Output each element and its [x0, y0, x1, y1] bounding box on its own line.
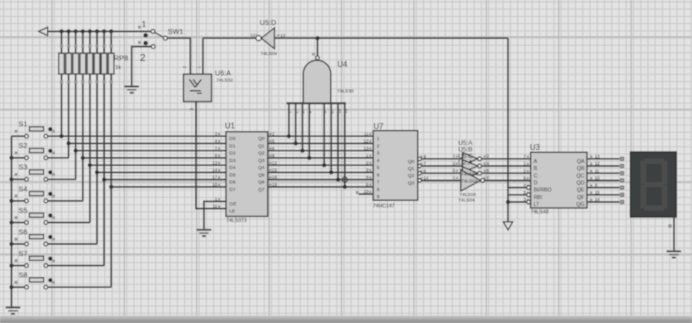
push button S1	[12, 120, 55, 139]
svg-text:QD: QD	[577, 181, 585, 187]
wire U4 output net along top	[275, 37, 509, 39]
wire display common to ground	[673, 217, 675, 250]
svg-text:1: 1	[377, 136, 380, 142]
svg-text:5: 5	[377, 165, 380, 171]
svg-text:74LS04: 74LS04	[458, 197, 475, 203]
svg-text:74LS04: 74LS04	[461, 171, 478, 177]
svg-text:Q4: Q4	[258, 165, 265, 171]
junction dots at RP8 columns on D rows	[59, 134, 113, 189]
decoder U3 74LS48	[524, 143, 601, 215]
svg-text:7: 7	[377, 180, 380, 186]
svg-text:QG: QG	[576, 202, 584, 208]
svg-text:A: A	[534, 159, 538, 165]
svg-text:QE: QE	[577, 188, 585, 194]
open ring at pin-12 wire crossing Q6 row	[342, 177, 347, 182]
svg-text:D6: D6	[229, 180, 236, 186]
svg-text:12: 12	[364, 139, 369, 144]
svg-text:C: C	[534, 173, 538, 179]
bubbles on U7 outputs	[418, 157, 422, 182]
svg-text:3: 3	[377, 151, 380, 157]
wire SW1 common to U6:A pin 2	[167, 38, 190, 74]
inverter U5:D 74LS04	[203, 18, 286, 74]
svg-text:S3: S3	[19, 163, 28, 172]
junction dots on bus at RP8 columns	[59, 29, 113, 33]
ground below display	[667, 251, 682, 257]
labels for U5/U2 inverter cluster	[458, 140, 478, 203]
svg-text:Q0: Q0	[258, 136, 265, 142]
svg-text:8: 8	[311, 53, 316, 56]
junction dots at U4 pins on Q rows	[287, 134, 347, 189]
svg-text:Q3: Q3	[408, 180, 415, 186]
ground below SW1 pole 2	[124, 87, 139, 93]
svg-text:Q5: Q5	[258, 172, 265, 178]
svg-text:S1: S1	[19, 120, 28, 129]
pads at display segment pins	[620, 157, 624, 204]
push button S4	[12, 184, 55, 203]
svg-text:U4: U4	[337, 60, 348, 69]
svg-text:4: 4	[377, 158, 380, 164]
svg-text:3: 3	[189, 108, 194, 111]
inverter U5:C 74LS04	[453, 167, 490, 180]
svg-text:RP8: RP8	[114, 54, 129, 63]
wire to U3 RBI	[508, 194, 527, 196]
junction dot at LT row	[506, 200, 510, 204]
svg-text:13: 13	[364, 146, 369, 151]
svg-text:QC: QC	[577, 173, 585, 179]
svg-text:74LS04: 74LS04	[460, 192, 477, 198]
svg-text:13: 13	[212, 160, 217, 165]
resistor pack RP8 (8 resistors, 1k)	[59, 45, 129, 84]
svg-text:U7: U7	[374, 122, 384, 131]
encoder U7 74HC147	[364, 122, 430, 209]
svg-text:11: 11	[364, 131, 369, 136]
wires U4 input pins down to Q rows	[289, 103, 345, 187]
ground below U1 OE	[197, 230, 212, 236]
svg-text:18: 18	[212, 182, 217, 187]
wire to U3 LT	[508, 201, 527, 203]
svg-text:S8: S8	[19, 271, 28, 280]
svg-text:2: 2	[377, 143, 380, 149]
svg-text:U2:A: U2:A	[458, 160, 473, 167]
svg-text:D5: D5	[229, 172, 236, 178]
svg-text:D3: D3	[229, 158, 236, 164]
svg-text:B: B	[534, 166, 538, 172]
wire SW1 pole 2 to ground	[132, 47, 152, 86]
latch U1 74LS373	[212, 122, 277, 224]
svg-text:74HC147: 74HC147	[373, 203, 395, 209]
pad at U7 input 9 end	[356, 191, 359, 194]
inverter U2:A 74LS04	[453, 170, 490, 191]
wire to U3 BI/RBO	[508, 187, 527, 189]
svg-text:D: D	[534, 181, 538, 187]
svg-text:Q1: Q1	[258, 143, 265, 149]
svg-text:11: 11	[213, 204, 218, 209]
svg-text:74LS04: 74LS04	[461, 178, 478, 184]
wire bus from terminal to SW1 pole 1	[48, 30, 152, 32]
svg-text:D7: D7	[229, 187, 236, 193]
wires: 8 pull-up columns through RP8 down to switches	[62, 31, 112, 287]
svg-text:74LS373: 74LS373	[226, 218, 247, 224]
svg-text:74LS48: 74LS48	[531, 210, 549, 216]
wire U6:A output to U1 LE	[196, 102, 226, 209]
wires U3 QA-QG to 7-segment display	[587, 159, 620, 202]
op-amp-style gate U6:A (74LS32 OR)	[182, 66, 233, 111]
svg-text:2: 2	[182, 66, 187, 69]
wire left rail to ground	[11, 136, 13, 306]
push button S2	[12, 141, 55, 160]
push button S6	[12, 227, 55, 246]
svg-text:Q2: Q2	[258, 151, 265, 157]
svg-text:14: 14	[212, 168, 217, 173]
svg-text:LT: LT	[534, 202, 541, 208]
7-segment display	[631, 152, 677, 217]
svg-text:S4: S4	[19, 184, 28, 193]
push button S5	[12, 206, 55, 225]
ground bottom left	[6, 308, 21, 314]
svg-text:S6: S6	[19, 227, 28, 236]
svg-text:17: 17	[212, 175, 217, 180]
svg-text:U5:D: U5:D	[260, 18, 276, 27]
svg-text:1: 1	[197, 66, 202, 69]
svg-text:RBI: RBI	[534, 195, 543, 201]
svg-text:OE: OE	[229, 201, 237, 207]
pad at display common pin	[668, 224, 671, 227]
svg-text:Q0: Q0	[408, 159, 415, 165]
svg-text:U3: U3	[530, 143, 540, 152]
svg-text:QB: QB	[577, 166, 585, 172]
svg-text:74LS30: 74LS30	[337, 89, 354, 95]
svg-text:LE: LE	[229, 209, 236, 215]
wires from switches / RP8 columns to U1 D0-D7	[48, 136, 226, 287]
svg-text:D0: D0	[229, 136, 236, 142]
nand gate U4 74LS30 (8-input)	[286, 38, 353, 113]
wire U7 input 9 stub	[359, 193, 374, 195]
switch SW1 (SPDT)	[138, 19, 183, 64]
svg-text:D1: D1	[229, 143, 236, 149]
wires U1 Q0-Q7 to U7 inputs	[268, 136, 373, 187]
inverter U5:A 74LS04	[453, 152, 490, 165]
svg-text:Q6: Q6	[258, 180, 265, 186]
wire right vertical to U3 LT	[507, 38, 509, 221]
svg-text:12: 12	[250, 33, 255, 38]
wire U1 OE to ground	[204, 201, 226, 229]
svg-text:Q1: Q1	[408, 166, 415, 172]
svg-text:74LS04: 74LS04	[261, 51, 278, 57]
push button S3	[12, 163, 55, 182]
wires U7 outputs to U3 A-D	[421, 159, 530, 181]
svg-text:9: 9	[377, 194, 380, 200]
push button S7	[12, 249, 55, 268]
svg-text:8: 8	[377, 187, 380, 193]
input terminal (left arrow)	[39, 27, 48, 35]
junction dots on left rail	[9, 156, 13, 290]
svg-text:6: 6	[377, 172, 380, 178]
junction dot at U4 output tee	[315, 36, 319, 40]
svg-text:Q2: Q2	[408, 173, 415, 179]
svg-text:BI/RBO: BI/RBO	[534, 188, 552, 194]
svg-text:QF: QF	[577, 195, 585, 201]
svg-text:U6:A: U6:A	[215, 68, 231, 77]
svg-text:QA: QA	[577, 159, 585, 165]
svg-text:D2: D2	[229, 151, 236, 157]
svg-text:S2: S2	[19, 141, 28, 150]
svg-text:D4: D4	[229, 165, 236, 171]
svg-text:Q3: Q3	[258, 158, 265, 164]
svg-text:2: 2	[140, 52, 146, 64]
svg-text:S7: S7	[19, 249, 28, 258]
push button S8	[12, 271, 55, 290]
svg-text:74LS32: 74LS32	[216, 78, 233, 84]
svg-text:S5: S5	[19, 206, 28, 215]
svg-text:13: 13	[280, 33, 285, 38]
output terminal (down arrow)	[503, 222, 512, 230]
inverter U5:B 74LS04	[453, 160, 490, 173]
svg-text:SW1: SW1	[168, 27, 184, 36]
svg-text:U1: U1	[225, 122, 235, 131]
svg-text:1: 1	[142, 19, 147, 29]
svg-text:1k: 1k	[115, 65, 121, 71]
svg-text:Q7: Q7	[258, 187, 265, 193]
